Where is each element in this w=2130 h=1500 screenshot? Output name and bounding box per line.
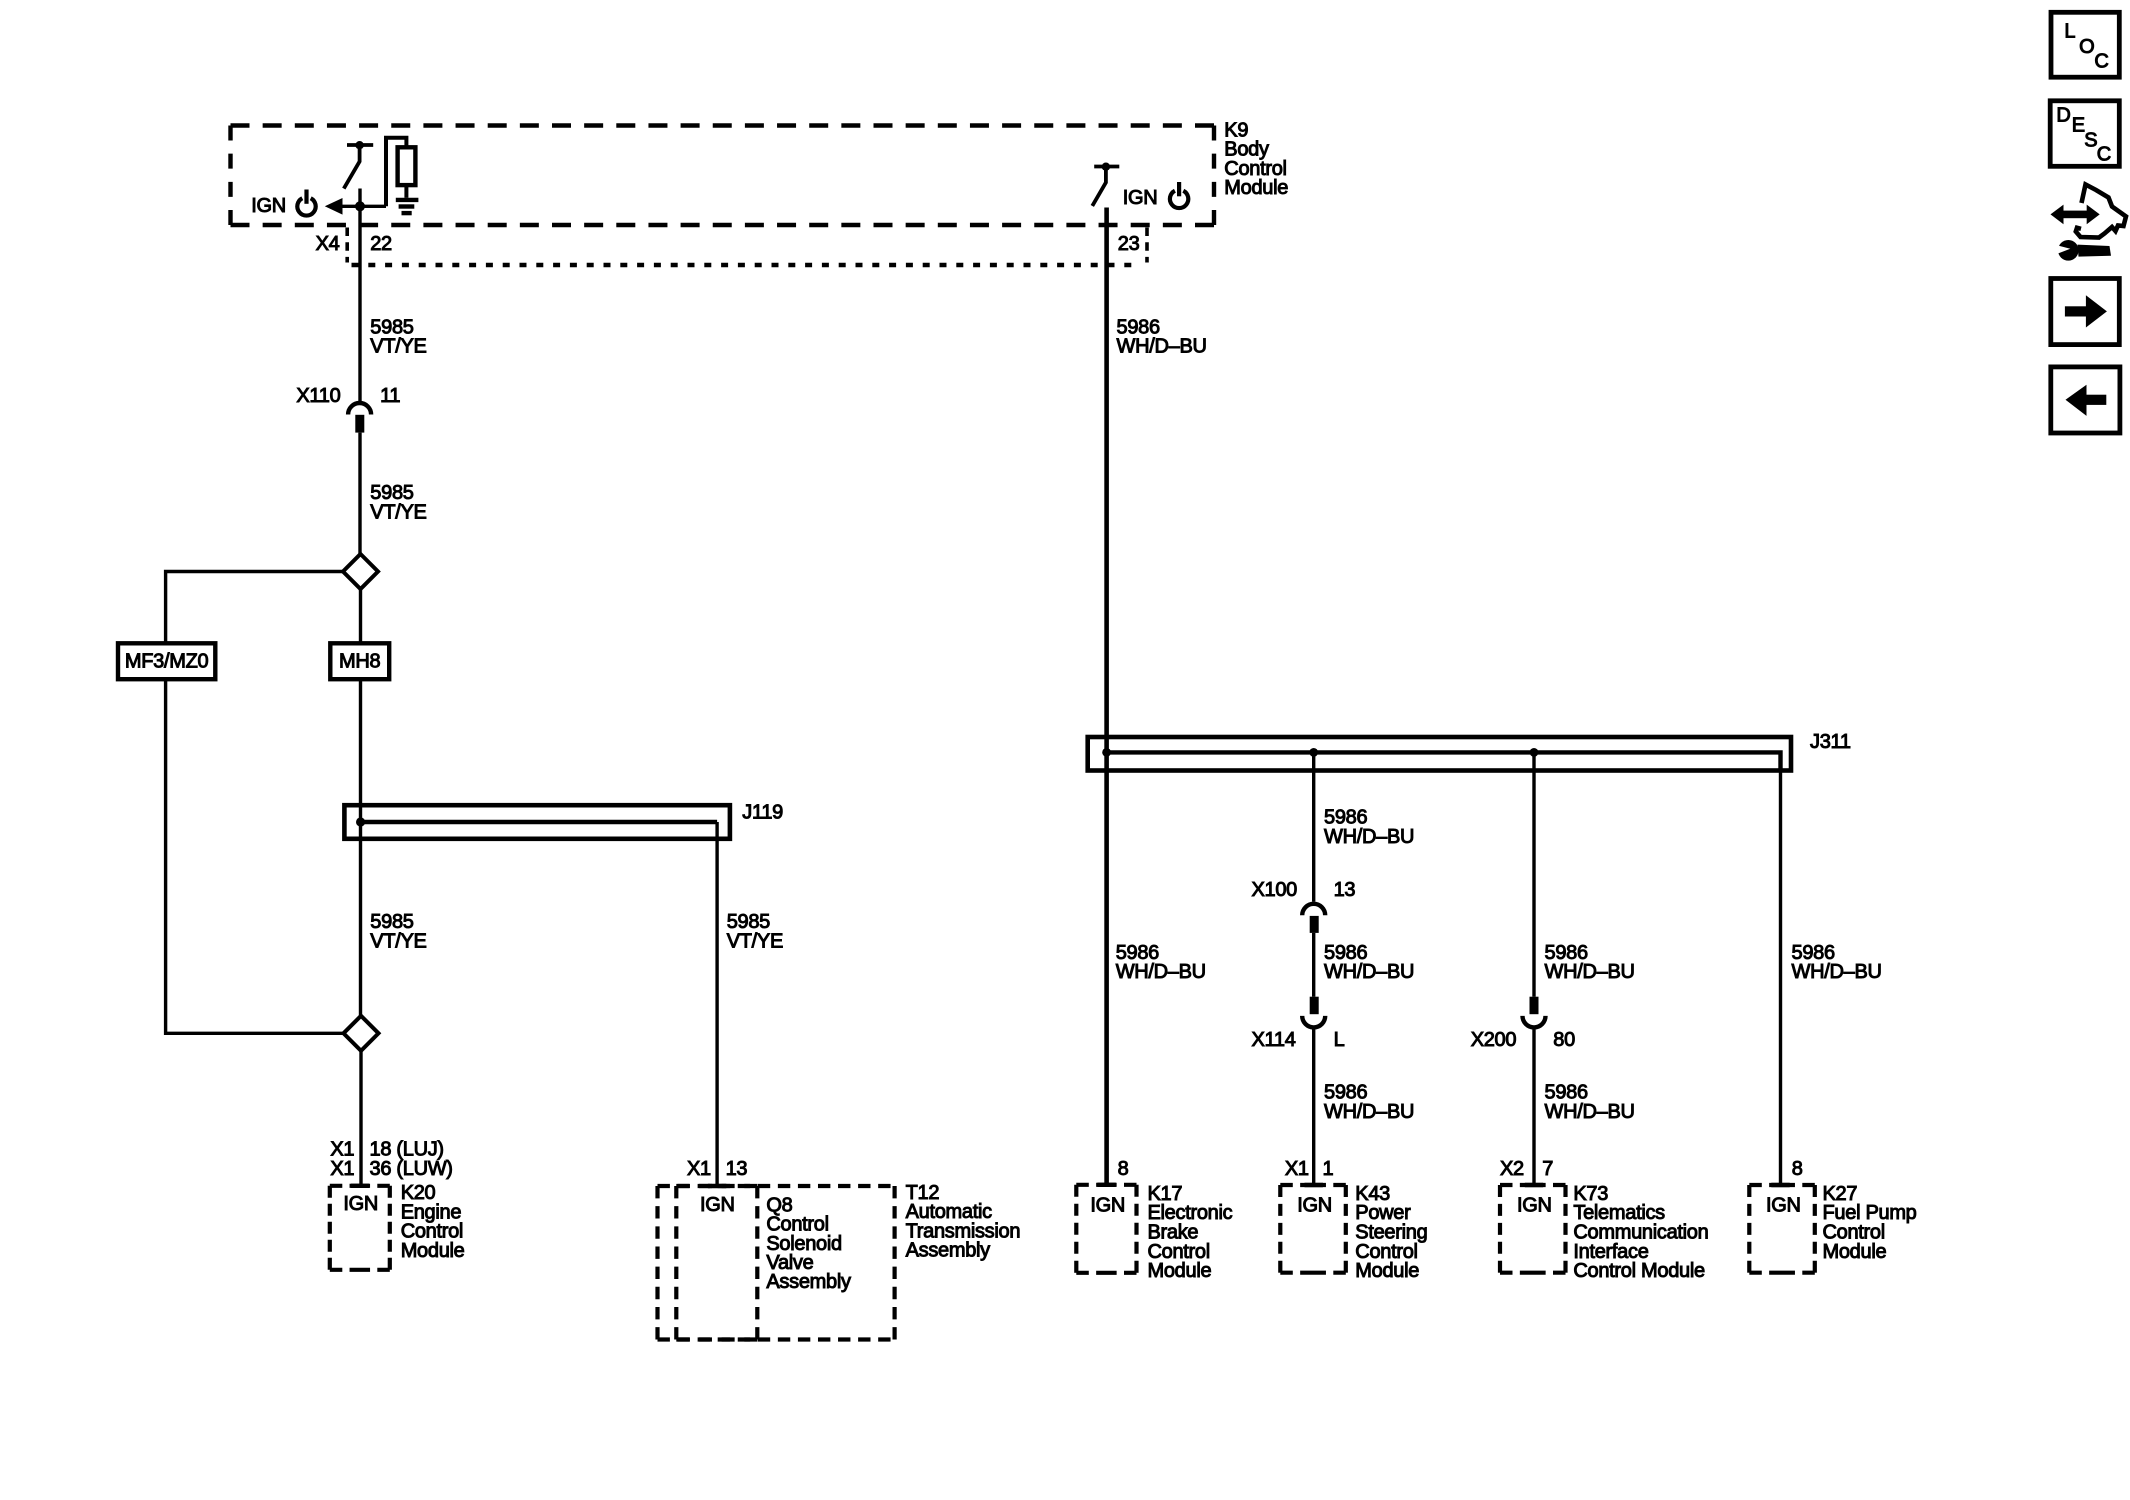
power symbol (right) (1170, 182, 1188, 208)
T12 label block (906, 1182, 1021, 1262)
svg-text:Assembly: Assembly (766, 1271, 851, 1293)
junction dot (BCM left) (355, 201, 365, 211)
svg-text:X1: X1 (687, 1158, 711, 1180)
assembly T12 outer dashed box (658, 1186, 895, 1340)
svg-text:X2: X2 (1500, 1158, 1524, 1180)
svg-text:Module: Module (401, 1240, 465, 1262)
svg-text:VT/YE: VT/YE (370, 501, 426, 523)
wire label 5986 WH/D-BU (above K73) (1545, 1082, 1635, 1123)
wire label 5985 VT/YE (2) (370, 482, 426, 523)
K9 label (1224, 119, 1288, 199)
svg-text:1: 1 (1323, 1158, 1334, 1180)
wire MF3/MZ0 to lower diamond (166, 679, 344, 1033)
connector stub right of pin 23 (1145, 228, 1149, 263)
module K43 Power Steering Control Module dashed box (1280, 1185, 1346, 1273)
wire 5985 X110 to splice diamond (358, 433, 361, 555)
wire MH8 to J119 and through to lower diamond (359, 679, 362, 1016)
svg-text:X114: X114 (1252, 1029, 1296, 1051)
svg-text:8: 8 (1118, 1158, 1129, 1180)
connector X114 symbol (1302, 997, 1325, 1028)
svg-text:IGN: IGN (343, 1193, 378, 1215)
wire terminal tick at K17 (1097, 1183, 1115, 1187)
svg-text:80: 80 (1553, 1029, 1575, 1051)
svg-text:X1: X1 (330, 1138, 354, 1160)
svg-text:18 (LUJ): 18 (LUJ) (370, 1138, 444, 1160)
svg-text:J119: J119 (742, 802, 783, 824)
wire X100 to X114 (1312, 933, 1315, 997)
K43 label block (1355, 1183, 1427, 1282)
svg-text:X1: X1 (1285, 1158, 1309, 1180)
svg-text:11: 11 (380, 385, 400, 407)
splice pack J311 (1088, 737, 1791, 771)
switch S2 blade (1092, 167, 1106, 206)
svg-text:IGN: IGN (1090, 1195, 1125, 1217)
wire X200 to K73 (1532, 1027, 1535, 1185)
K43 pin labels X1 1 (1285, 1158, 1334, 1180)
Q8 pin labels X1 13 (687, 1158, 747, 1180)
wire branch to MF3/MZ0 (166, 572, 343, 644)
K20 pin labels X1 18 (LUJ) / X1 36 (LUW) (330, 1138, 452, 1180)
switch S1 (BCM left) top contact bar (347, 143, 373, 147)
svg-text:IGN: IGN (251, 195, 286, 217)
wire diamond to MH8 (359, 589, 362, 643)
svg-text:O: O (2079, 36, 2094, 58)
connector X110 symbol (348, 403, 371, 433)
K73 label block (1573, 1183, 1708, 1282)
option box MH8 (330, 643, 389, 679)
svg-text:D: D (2056, 105, 2070, 127)
splice diamond (upper) (343, 554, 378, 589)
svg-text:Assembly: Assembly (906, 1240, 991, 1262)
switch S1 pivot dot (355, 141, 363, 149)
wire label 5985 VT/YE (3) (370, 911, 426, 952)
icon left-arrow box (2051, 367, 2120, 433)
wire terminal tick at K73 (1525, 1183, 1543, 1187)
ground (BCM internal) (396, 200, 419, 213)
svg-text:Module: Module (1224, 177, 1288, 199)
wire label 5986 WH/D-BU (K17 branch) (1116, 942, 1206, 983)
connector row dotted line (352, 263, 1140, 267)
module K17 Electronic Brake Control Module dashed box (1076, 1185, 1136, 1273)
svg-text:8: 8 (1792, 1158, 1803, 1180)
wire label 5985 VT/YE (1) (370, 316, 426, 357)
svg-text:Module: Module (1823, 1241, 1887, 1263)
svg-text:7: 7 (1542, 1158, 1553, 1180)
K17 label block (1148, 1183, 1233, 1282)
icon harness-repair (double arrow, outline, wrench) (2051, 185, 2127, 261)
svg-text:J311: J311 (1810, 731, 1851, 753)
wire label 5986 WH/D-BU (above K27) (1792, 942, 1882, 983)
power symbol (left) (297, 190, 315, 216)
svg-text:E: E (2072, 114, 2085, 136)
svg-text:IGN: IGN (1517, 1195, 1552, 1217)
K27 label block (1823, 1183, 1917, 1263)
resistor R (BCM internal pull) (398, 147, 416, 185)
svg-text:X100: X100 (1252, 879, 1298, 901)
svg-text:L: L (2064, 20, 2075, 42)
wire 5986 branch to X200 (1532, 752, 1535, 996)
module K20 Engine Control Module dashed box (330, 1186, 390, 1270)
wire terminal tick at K27 (1771, 1183, 1789, 1187)
icon LOC box (2051, 12, 2119, 77)
wire terminal tick at K43 (1305, 1183, 1323, 1187)
svg-text:13: 13 (726, 1158, 748, 1180)
svg-text:VT/YE: VT/YE (370, 336, 426, 358)
switch S2 (BCM right) top contact bar (1094, 165, 1119, 169)
option box MF3/MZ0 (118, 643, 215, 679)
svg-text:IGN: IGN (1766, 1195, 1801, 1217)
svg-text:WH/D–BU: WH/D–BU (1324, 826, 1414, 848)
connector X100 symbol (1302, 904, 1325, 933)
svg-text:WH/D–BU: WH/D–BU (1545, 1101, 1635, 1123)
svg-text:13: 13 (1334, 879, 1356, 901)
svg-text:36 (LUW): 36 (LUW) (370, 1158, 453, 1180)
svg-text:S: S (2084, 130, 2097, 152)
svg-text:Module: Module (1148, 1260, 1212, 1282)
wire label 5986 WH/D-BU (above X200) (1545, 942, 1635, 983)
svg-text:WH/D–BU: WH/D–BU (1324, 1101, 1414, 1123)
splice pack J119 (344, 805, 730, 839)
svg-text:X200: X200 (1471, 1029, 1517, 1051)
svg-text:WH/D–BU: WH/D–BU (1116, 961, 1206, 983)
icon right-arrow box (2051, 279, 2120, 345)
svg-text:WH/D–BU: WH/D–BU (1545, 961, 1635, 983)
svg-text:Control Module: Control Module (1573, 1260, 1705, 1282)
svg-text:X110: X110 (296, 385, 340, 407)
Q8 label block (766, 1195, 851, 1293)
wire label 5986 WH/D-BU (X100-X114) (1324, 942, 1414, 983)
module K73 Telematics Communication Interface Control Module dashed box (1500, 1185, 1566, 1273)
wire loop up to resistor (386, 138, 406, 207)
connector X4 stub (345, 228, 349, 263)
svg-text:C: C (2094, 50, 2108, 72)
wire X114 to K43 (1312, 1027, 1315, 1185)
svg-text:VT/YE: VT/YE (370, 931, 426, 953)
connector X200 symbol (1523, 997, 1546, 1028)
wire 5985 from BCM X4-22 down to X110 (358, 189, 361, 402)
wire J119 branch down to Q8 (715, 822, 718, 1186)
wire terminal tick at K20 (351, 1184, 369, 1188)
svg-text:23: 23 (1118, 233, 1140, 255)
switch S2 pivot dot (1102, 163, 1110, 171)
svg-text:22: 22 (370, 233, 392, 255)
svg-text:IGN: IGN (1123, 187, 1158, 209)
wire lower diamond to K20 (359, 1051, 362, 1186)
wire label 5986 WH/D-BU (above X100) (1324, 807, 1414, 848)
svg-text:Module: Module (1355, 1260, 1419, 1282)
icon DESC box (2050, 101, 2119, 167)
svg-text:WH/D–BU: WH/D–BU (1792, 961, 1882, 983)
svg-text:VT/YE: VT/YE (727, 931, 783, 953)
K20 label block (401, 1182, 465, 1262)
svg-text:MH8: MH8 (339, 650, 381, 672)
module K9 Body Control Module dashed box (231, 126, 1215, 226)
switch S1 blade (344, 145, 360, 188)
svg-text:MF3/MZ0: MF3/MZ0 (125, 650, 209, 672)
svg-text:WH/D–BU: WH/D–BU (1324, 961, 1414, 983)
svg-text:X1: X1 (330, 1158, 354, 1180)
wire 5986 branch to X100 (1312, 752, 1315, 901)
wire label 5986 WH/D-BU (top) (1117, 316, 1207, 357)
splice diamond (lower) (344, 1016, 379, 1051)
wire terminal tick at Q8 (708, 1184, 726, 1188)
wire 5986 from BCM pin 23 down through J311 to K17 (1104, 208, 1109, 1185)
svg-text:C: C (2097, 143, 2111, 165)
module Q8 inner dashed box (676, 1186, 757, 1340)
wire label 5985 VT/YE (4) (727, 911, 783, 952)
arrow to IGN power symbol (342, 205, 387, 208)
svg-text:IGN: IGN (1297, 1195, 1332, 1217)
svg-text:L: L (1334, 1029, 1345, 1051)
wire 5986 branch to K27 (1779, 770, 1782, 1185)
wire label 5986 WH/D-BU (above K43) (1324, 1082, 1414, 1123)
svg-text:WH/D–BU: WH/D–BU (1117, 336, 1207, 358)
svg-text:X4: X4 (316, 233, 340, 255)
svg-text:IGN: IGN (700, 1194, 735, 1216)
K73 pin labels X2 7 (1500, 1158, 1553, 1180)
module K27 Fuel Pump Control Module dashed box (1749, 1185, 1815, 1273)
